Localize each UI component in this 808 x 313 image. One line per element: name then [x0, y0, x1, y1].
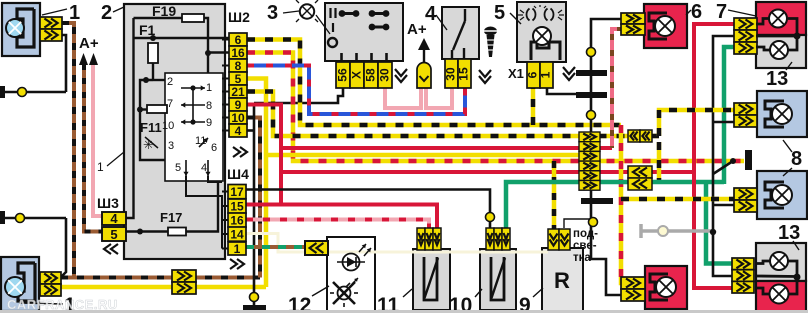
svg-text:8: 8 [791, 148, 802, 170]
svg-text:30: 30 [444, 67, 458, 81]
svg-text:6: 6 [691, 1, 702, 23]
svg-text:10: 10 [162, 120, 174, 132]
svg-text:30: 30 [378, 68, 392, 82]
svg-text:10: 10 [231, 111, 245, 125]
svg-text:16: 16 [230, 214, 244, 228]
svg-text:Х1: Х1 [508, 66, 524, 81]
svg-text:15: 15 [230, 200, 244, 214]
svg-text:6: 6 [211, 142, 217, 154]
svg-text:8: 8 [235, 59, 242, 73]
svg-text:5: 5 [175, 162, 181, 174]
svg-text:5: 5 [235, 72, 242, 86]
svg-text:F19: F19 [152, 3, 176, 19]
svg-text:2: 2 [101, 2, 112, 24]
svg-text:14: 14 [230, 228, 244, 242]
svg-text:X: X [350, 71, 364, 79]
svg-text:под-: под- [573, 228, 598, 240]
svg-text:16: 16 [231, 46, 245, 60]
svg-text:Ш3: Ш3 [97, 195, 119, 211]
svg-text:1: 1 [97, 160, 104, 174]
svg-text:3: 3 [267, 2, 278, 24]
svg-text:9: 9 [206, 117, 212, 129]
svg-text:1: 1 [69, 2, 80, 24]
svg-text:F17: F17 [160, 210, 182, 225]
svg-text:6: 6 [235, 33, 242, 47]
svg-text:1: 1 [206, 82, 212, 94]
svg-text:CARFRANCE.RU: CARFRANCE.RU [7, 297, 118, 312]
svg-text:Ш2: Ш2 [228, 9, 250, 25]
svg-text:21: 21 [231, 85, 245, 99]
svg-text:3: 3 [168, 140, 174, 152]
svg-text:R: R [554, 268, 570, 293]
svg-text:4: 4 [235, 124, 242, 138]
svg-text:F1: F1 [139, 22, 156, 38]
svg-text:4: 4 [110, 211, 118, 226]
svg-text:7: 7 [716, 1, 727, 23]
svg-text:1: 1 [234, 242, 241, 256]
svg-text:6: 6 [526, 71, 540, 78]
svg-text:A+: A+ [79, 35, 99, 52]
svg-text:8: 8 [206, 100, 212, 112]
svg-text:F11: F11 [140, 120, 162, 135]
svg-text:56: 56 [336, 68, 350, 82]
svg-text:1: 1 [539, 71, 553, 78]
svg-text:4: 4 [425, 3, 437, 25]
svg-text:15: 15 [457, 67, 471, 81]
svg-text:58: 58 [364, 68, 378, 82]
svg-text:тка: тка [573, 252, 591, 264]
svg-text:све-: све- [573, 240, 597, 252]
svg-text:A+: A+ [407, 21, 427, 38]
svg-text:7: 7 [167, 98, 173, 110]
svg-text:17: 17 [230, 185, 244, 199]
svg-text:5: 5 [494, 2, 505, 24]
svg-text:4: 4 [201, 162, 207, 174]
svg-text:9: 9 [235, 98, 242, 112]
svg-text:5: 5 [110, 227, 117, 242]
svg-text:2: 2 [167, 76, 173, 88]
svg-text:13: 13 [766, 68, 788, 90]
svg-text:Ш4: Ш4 [227, 166, 249, 182]
svg-text:11: 11 [195, 135, 206, 147]
svg-text:13: 13 [778, 222, 800, 244]
